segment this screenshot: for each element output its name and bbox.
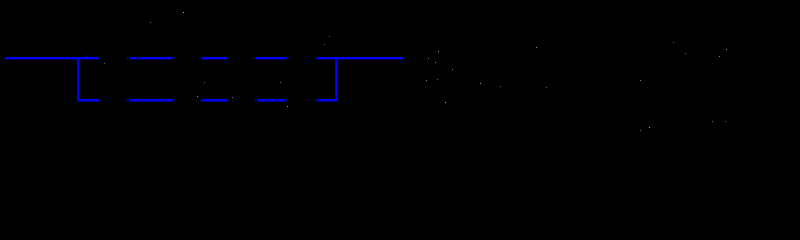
black notch over top dash (glyph overlap)	[138, 57, 139, 58]
wire data cell 3 top dash (dot-solid-dot)	[253, 57, 288, 59]
black notch over stop-bit line (glyph overlap)	[326, 57, 327, 58]
wire start cell low level	[77, 99, 99, 101]
tick above line (bit boundary mark)	[86, 55, 88, 57]
wire data cell 3 bottom dash (dot-solid-dot)	[255, 99, 288, 101]
wire data cell 1 top dash	[129, 57, 173, 59]
antialias specks of invisible black text	[104, 12, 727, 131]
node dot before stop-bit (top)	[315, 57, 316, 59]
wire data cell 2 bottom dash	[201, 99, 228, 101]
wire last data cell bottom dash + rising edge to stop bit	[318, 57, 337, 101]
wire idle-high level (continues over start cell)	[5, 57, 99, 59]
wire last data cell top + stop bit high	[318, 57, 404, 59]
node dot before data cell 1 (top)	[127, 57, 128, 59]
wire falling edge at start of frame	[77, 57, 79, 101]
node dot before data cell 1 (bottom)	[127, 99, 128, 101]
wire data cell 1 bottom dash	[129, 99, 173, 101]
wire data cell 2 top dash	[202, 57, 228, 59]
node dot before last cell (bottom)	[315, 99, 316, 101]
